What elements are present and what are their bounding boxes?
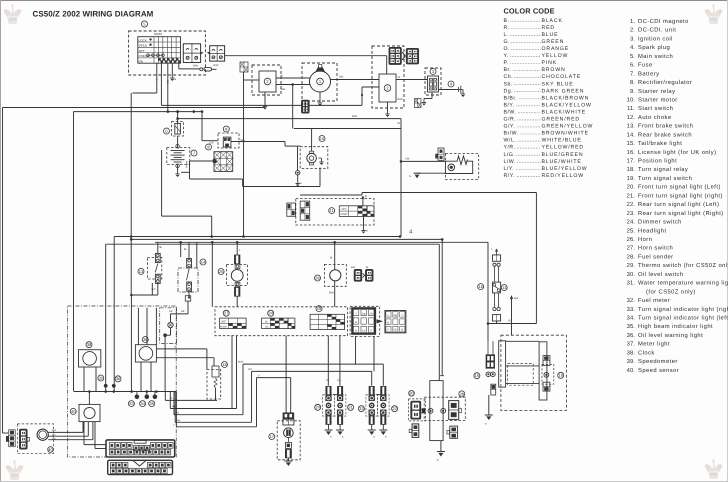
wire	[176, 164, 180, 170]
svg-text:14: 14	[201, 259, 206, 264]
wire	[178, 63, 180, 69]
connector	[409, 424, 419, 438]
wire	[137, 308, 139, 345]
wire	[287, 438, 289, 443]
starter relay R9	[209, 126, 245, 148]
svg-text:Front turn signal light (right: Front turn signal light (right)	[638, 192, 723, 199]
wire	[188, 291, 190, 298]
wire	[141, 362, 151, 392]
wire	[155, 308, 157, 345]
switch housing	[215, 307, 348, 336]
color code legend	[504, 7, 594, 179]
svg-text:BLUE/GREEN: BLUE/GREEN	[542, 152, 584, 158]
choke terminal	[296, 146, 303, 186]
wire	[506, 365, 539, 367]
svg-text:34.: 34.	[627, 314, 636, 321]
horn H26	[315, 264, 347, 286]
wire	[146, 308, 148, 345]
svg-text:18: 18	[222, 362, 227, 367]
svg-text:Rectifier/regulator: Rectifier/regulator	[638, 79, 692, 86]
svg-text:Start switch: Start switch	[638, 105, 673, 112]
svg-text:Oil level warning light: Oil level warning light	[638, 332, 703, 339]
svg-text:Rear turn signal light (Left): Rear turn signal light (Left)	[638, 201, 719, 208]
svg-text:23.: 23.	[627, 210, 636, 217]
ground	[485, 415, 493, 426]
rear brake switch S14	[178, 259, 206, 293]
wire	[417, 172, 445, 174]
svg-text:10.: 10.	[627, 96, 636, 103]
svg-text:B/W.: B/W.	[504, 109, 517, 115]
wire	[73, 112, 75, 392]
svg-text:Ch: Ch	[362, 329, 366, 332]
svg-text:27: 27	[224, 311, 229, 316]
svg-text:13: 13	[139, 269, 144, 274]
svg-text:1.: 1.	[630, 19, 635, 25]
wire	[88, 392, 90, 405]
fuse wire	[179, 68, 217, 71]
wire	[242, 364, 244, 415]
svg-text:36.: 36.	[627, 332, 636, 339]
svg-text:GR: GR	[181, 310, 185, 313]
wire	[158, 242, 162, 253]
start switch S11	[296, 199, 374, 226]
svg-text:Br/W: Br/W	[238, 361, 244, 364]
svg-text:30: 30	[409, 391, 414, 396]
svg-text:34: 34	[140, 401, 145, 406]
ground	[170, 75, 176, 82]
wire	[287, 458, 289, 461]
svg-text:GR: GR	[169, 310, 173, 313]
wire	[285, 336, 287, 413]
harness connector C2	[108, 460, 173, 474]
wire node A	[3, 107, 266, 109]
fuel meter FM32	[160, 296, 191, 392]
svg-text:21: 21	[348, 405, 353, 410]
wire	[506, 340, 539, 342]
label W	[398, 122, 401, 125]
svg-text:BLACK: BLACK	[542, 18, 563, 24]
svg-text:COLOR CODE: COLOR CODE	[504, 7, 555, 16]
svg-text:Y/R.: Y/R.	[504, 145, 516, 151]
svg-text:21.: 21.	[627, 192, 636, 199]
wire	[165, 392, 217, 401]
svg-text:PUSH: PUSH	[220, 326, 227, 329]
front turn signal light R21	[334, 386, 353, 438]
svg-text:Main switch: Main switch	[638, 53, 673, 60]
wire	[300, 193, 536, 196]
svg-text:Starter motor: Starter motor	[638, 96, 678, 103]
svg-text:24.: 24.	[627, 219, 636, 226]
harness connector C1	[106, 440, 175, 457]
svg-text:Sb.: Sb.	[504, 81, 513, 87]
indicator 35	[149, 401, 155, 407]
svg-text:CS50/Z 2002 WIRING DIAGRAM: CS50/Z 2002 WIRING DIAGRAM	[33, 10, 154, 19]
svg-text:25: 25	[219, 269, 224, 274]
svg-text:B/W: B/W	[193, 65, 198, 68]
speedometer SP39	[135, 337, 156, 363]
wire	[160, 63, 162, 105]
svg-text:Turn signal switch: Turn signal switch	[638, 175, 692, 182]
svg-text:24: 24	[268, 311, 273, 316]
wire	[130, 283, 158, 391]
wire	[162, 150, 212, 237]
rear turn signal light L22	[358, 386, 377, 438]
svg-text:Dg.: Dg.	[504, 88, 514, 94]
svg-text:B: B	[365, 195, 367, 198]
svg-text:28: 28	[460, 391, 465, 396]
wire	[361, 87, 379, 105]
svg-text:4.: 4.	[630, 45, 635, 51]
svg-text:5.: 5.	[630, 54, 635, 60]
svg-text:38: 38	[87, 342, 92, 347]
svg-text:40: 40	[48, 447, 53, 452]
wire	[84, 422, 106, 445]
svg-text:Or: Or	[398, 76, 401, 79]
ground	[437, 452, 445, 463]
svg-text:Turn signal relay: Turn signal relay	[638, 166, 688, 173]
indicator 36	[115, 376, 121, 382]
wire	[292, 85, 294, 129]
svg-text:Speedometer: Speedometer	[638, 358, 678, 365]
wire	[510, 295, 519, 335]
svg-text:25.: 25.	[627, 227, 636, 234]
svg-text:W/R: W/R	[281, 88, 286, 91]
svg-text:R.: R.	[504, 25, 510, 31]
ground	[410, 173, 421, 178]
node 16	[478, 284, 484, 290]
wire	[440, 441, 442, 451]
svg-text:Battery: Battery	[185, 161, 188, 169]
svg-text:BROWN/WHITE: BROWN/WHITE	[542, 131, 589, 137]
wire	[382, 364, 384, 386]
svg-text:Dg: Dg	[394, 314, 398, 317]
svg-text:10: 10	[320, 136, 325, 141]
svg-text:12.: 12.	[627, 114, 636, 121]
svg-text:Starter relay: Starter relay	[638, 88, 675, 95]
spark plug P4	[448, 81, 461, 94]
clock CL38	[79, 342, 101, 367]
svg-text:18.: 18.	[627, 166, 636, 173]
label W/L	[339, 76, 344, 79]
node 13	[501, 285, 507, 291]
wire	[48, 422, 83, 433]
wire	[95, 422, 106, 449]
indicator 32	[98, 375, 104, 381]
wire	[371, 371, 373, 385]
svg-text:HI: HI	[265, 321, 268, 324]
wire	[236, 296, 238, 307]
svg-text:DC-CDI. unit: DC-CDI. unit	[638, 27, 676, 34]
wire	[156, 346, 207, 370]
svg-text:MAIN: MAIN	[154, 32, 162, 36]
tie	[333, 394, 338, 396]
rectifier/regulator U8	[206, 144, 233, 171]
speed sensor SS40	[70, 404, 100, 421]
svg-text:33.: 33.	[627, 306, 636, 313]
svg-text:Position light: Position light	[638, 158, 677, 165]
lamp dots	[104, 384, 116, 388]
svg-text:B/W: B/W	[329, 292, 334, 295]
wire B/W bus	[176, 115, 401, 120]
wire	[174, 392, 243, 415]
svg-text:BLACK/BROWN: BLACK/BROWN	[542, 95, 590, 101]
svg-text:Ch: Ch	[394, 329, 398, 332]
wire	[243, 72, 245, 237]
svg-text:Front brake switch: Front brake switch	[638, 123, 693, 130]
fuel tank	[430, 381, 443, 441]
svg-text:Water temperature warning ligh: Water temperature warning light	[638, 280, 728, 287]
wire	[156, 358, 214, 366]
magneto connector	[302, 100, 309, 113]
dimmer switch S24	[262, 310, 295, 328]
svg-text:BROWN: BROWN	[542, 67, 566, 73]
svg-text:Turn signal indicator light (r: Turn signal indicator light (right)	[638, 306, 728, 313]
svg-text:8.: 8.	[630, 79, 635, 86]
svg-text:Rear brake switch: Rear brake switch	[638, 131, 692, 138]
wire WR	[276, 83, 310, 91]
title	[33, 10, 154, 19]
svg-text:Tail/brake light: Tail/brake light	[638, 140, 682, 147]
wire YW	[400, 158, 446, 163]
svg-text:B/W: B/W	[352, 115, 357, 118]
svg-text:32: 32	[99, 375, 104, 380]
turn signal switch S19	[310, 306, 345, 330]
ignition coil T3	[425, 68, 441, 95]
svg-text:G/Y.: G/Y.	[504, 124, 516, 130]
connector	[408, 391, 425, 421]
wire	[181, 161, 320, 187]
svg-text:39.: 39.	[627, 358, 636, 365]
svg-text:6.: 6.	[630, 62, 635, 69]
svg-text:Y: Y	[355, 313, 357, 316]
DC-CDI magneto M1	[302, 63, 337, 101]
wire to CDI	[225, 56, 387, 74]
fuel sender FS28	[422, 391, 465, 421]
svg-text:OFF: OFF	[139, 49, 145, 53]
svg-text:B/W: B/W	[214, 64, 219, 67]
wire	[257, 375, 291, 378]
wire	[180, 242, 182, 257]
svg-text:Br/W.: Br/W.	[504, 131, 519, 137]
svg-text:16: 16	[558, 373, 563, 378]
svg-text:SKY BLUE: SKY BLUE	[542, 81, 574, 87]
svg-text:16.: 16.	[627, 149, 636, 156]
wire	[175, 392, 251, 423]
svg-text:Speed sensor: Speed sensor	[638, 367, 679, 374]
wire	[363, 216, 365, 227]
horn switch S27	[220, 310, 247, 328]
main switch harness connector	[207, 46, 225, 61]
CDI ground bus	[263, 102, 267, 110]
wire	[84, 367, 96, 392]
svg-text:Ignition coil: Ignition coil	[638, 35, 673, 42]
indicator lamps	[135, 392, 158, 400]
svg-text:Front turn signal light (Left): Front turn signal light (Left)	[638, 184, 721, 191]
CDI connector a	[389, 48, 401, 65]
main switch connector	[183, 44, 203, 63]
meter bus	[74, 390, 176, 393]
svg-text:37.: 37.	[627, 341, 636, 348]
svg-text:Turn signal indicator light (l: Turn signal indicator light (left)	[638, 314, 728, 321]
fuse F6	[164, 122, 184, 137]
wire	[161, 104, 362, 106]
svg-text:W/L: W/L	[339, 76, 344, 79]
svg-text:11.: 11.	[627, 106, 635, 112]
wire	[236, 336, 238, 409]
svg-text:GREEN: GREEN	[542, 39, 565, 45]
ground	[385, 102, 389, 117]
svg-text:35: 35	[149, 401, 154, 406]
wire	[355, 336, 357, 364]
svg-text:High beam indicator light: High beam indicator light	[638, 323, 713, 330]
svg-text:3.: 3.	[630, 35, 635, 42]
wire	[438, 244, 440, 381]
ground	[284, 461, 292, 466]
CDI connector b	[406, 49, 418, 64]
main switch S5	[129, 21, 206, 75]
wire	[211, 242, 213, 306]
svg-text:B: B	[388, 321, 390, 324]
svg-text:BLUE/WHITE: BLUE/WHITE	[542, 159, 582, 165]
bus	[131, 238, 443, 241]
svg-text:R/Y.: R/Y.	[504, 173, 515, 179]
wire	[285, 142, 300, 147]
svg-text:G/Y: G/Y	[508, 320, 513, 323]
svg-text:Fuel meter: Fuel meter	[638, 297, 670, 304]
svg-text:Battery: Battery	[638, 71, 660, 77]
svg-text:40.: 40.	[627, 367, 636, 374]
svg-text:OFF: OFF	[342, 208, 347, 211]
svg-text:G: G	[174, 346, 176, 349]
svg-text:Ch.: Ch.	[504, 74, 514, 80]
svg-text:Br: Br	[366, 266, 369, 269]
tie	[376, 394, 381, 396]
svg-text:START: START	[340, 213, 348, 216]
svg-text:2.: 2.	[630, 27, 635, 34]
svg-text:BLACK/WHITE: BLACK/WHITE	[542, 109, 587, 115]
svg-text:17.: 17.	[627, 159, 636, 165]
battery B7	[167, 148, 197, 169]
svg-text:15: 15	[475, 373, 480, 378]
front turn signal light L20	[315, 386, 335, 438]
license light LP16	[542, 356, 564, 392]
svg-text:L/W.: L/W.	[504, 159, 516, 165]
bulb tube left	[499, 341, 506, 387]
DC-CDI unit U2	[372, 46, 404, 108]
svg-text:LO: LO	[265, 326, 268, 329]
wire	[487, 242, 490, 341]
svg-text:B/Br.: B/Br.	[504, 95, 518, 101]
harness connector J2	[385, 311, 406, 333]
svg-text:YELLOW/RED: YELLOW/RED	[542, 145, 585, 151]
svg-text:Br.: Br.	[504, 67, 512, 73]
svg-text:OFF: OFF	[221, 321, 226, 324]
svg-text:ON: ON	[139, 60, 144, 64]
svg-text:Clock: Clock	[638, 349, 655, 356]
svg-text:DARK GREEN: DARK GREEN	[542, 88, 585, 94]
svg-text:Fuel sender: Fuel sender	[638, 253, 674, 260]
svg-text:33: 33	[359, 406, 364, 411]
coil connector	[415, 99, 422, 108]
svg-text:(for CS50Z only): (for CS50Z only)	[646, 288, 696, 295]
wire	[400, 119, 402, 237]
svg-text:27.: 27.	[627, 245, 636, 252]
tail inner box	[508, 364, 534, 386]
svg-text:License light (for UK only): License light (for UK only)	[638, 149, 717, 156]
wire	[130, 93, 133, 295]
wire	[264, 92, 266, 102]
svg-text:LOCK: LOCK	[139, 38, 147, 42]
wire labels	[155, 79, 169, 85]
svg-text:31.: 31.	[627, 280, 636, 287]
svg-text:26: 26	[315, 275, 320, 280]
wire	[331, 79, 380, 81]
svg-text:B/W: B/W	[398, 98, 403, 101]
svg-text:Y.: Y.	[504, 53, 509, 59]
svg-text:WHITE/BLUE: WHITE/BLUE	[542, 138, 582, 144]
svg-text:YELLOW: YELLOW	[542, 53, 569, 59]
wire	[237, 242, 241, 255]
svg-text:BLUE: BLUE	[542, 32, 559, 38]
svg-text:Dimmer switch: Dimmer switch	[638, 219, 682, 226]
svg-text:CHOCOLATE: CHOCOLATE	[542, 74, 582, 80]
wire	[105, 244, 107, 391]
wire	[170, 392, 236, 409]
wire	[74, 110, 203, 113]
svg-text:17: 17	[270, 434, 275, 439]
wire	[201, 110, 218, 140]
svg-text:36: 36	[116, 376, 121, 381]
wire	[248, 368, 372, 371]
svg-text:40: 40	[71, 409, 76, 414]
wire	[184, 242, 189, 258]
wire	[329, 281, 335, 307]
label Or	[398, 76, 403, 101]
svg-text:PINK: PINK	[542, 60, 558, 66]
svg-text:20: 20	[315, 405, 320, 410]
svg-text:Headlight: Headlight	[638, 227, 667, 234]
wire	[196, 242, 198, 268]
svg-text:20.: 20.	[627, 184, 636, 191]
wire	[251, 371, 253, 422]
svg-text:35.: 35.	[627, 323, 636, 330]
component list	[627, 18, 728, 374]
svg-text:L.: L.	[504, 32, 509, 38]
wire	[439, 89, 457, 91]
svg-text:Dg: Dg	[362, 313, 366, 316]
brake light feed chain	[491, 248, 501, 324]
wire	[215, 388, 217, 400]
svg-text:7.: 7.	[630, 71, 635, 77]
svg-text:OPEN: OPEN	[139, 44, 148, 48]
svg-text:B/Y.: B/Y.	[504, 102, 515, 108]
CDI ground connector	[240, 62, 248, 72]
svg-text:19: 19	[317, 306, 322, 311]
fuel connector	[447, 426, 458, 438]
svg-text:P: P	[370, 329, 372, 332]
svg-text:Horn: Horn	[638, 237, 652, 243]
svg-text:39: 39	[143, 337, 148, 342]
start switch connector	[287, 201, 310, 220]
svg-text:RED/YELLOW: RED/YELLOW	[542, 173, 585, 179]
headlight LP25	[218, 255, 248, 296]
wire	[48, 422, 93, 441]
svg-text:B: B	[355, 321, 357, 324]
svg-text:Meter light: Meter light	[638, 341, 670, 348]
svg-text:26.: 26.	[627, 236, 636, 243]
ground	[318, 99, 322, 106]
sensor rotor	[6, 424, 53, 454]
